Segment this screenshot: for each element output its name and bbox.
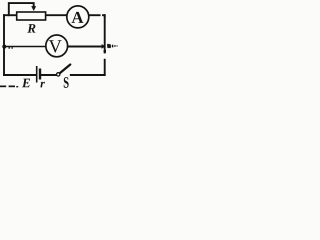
label A: [72, 12, 84, 23]
wire voltmeter left branch: [4, 46, 46, 48]
scan speck 1: [112, 45, 113, 48]
node junction dot left: [2, 45, 6, 49]
voltmeter U-V circle: [46, 35, 68, 57]
switch S lever: [60, 65, 70, 74]
label V: [49, 40, 62, 52]
scan speck 3: [116, 45, 119, 46]
label E: [22, 79, 30, 88]
dash mark 1 bottom-left: [0, 86, 6, 88]
scan speck under wire b: [11, 47, 13, 48]
wire right vertical upper: [104, 15, 106, 52]
arrowhead at voltmeter wire right end: [102, 44, 106, 48]
wire bottom-left to battery: [4, 74, 36, 76]
junction bulge on right vertical: [104, 50, 106, 53]
rheostat slider arrow head: [31, 6, 36, 11]
wire ammeter to top-right: [89, 14, 100, 16]
dash mark 2 bottom-left: [9, 86, 15, 88]
label r: [40, 82, 45, 88]
switch S pivot circle: [57, 73, 60, 76]
label S: [64, 77, 69, 88]
wire rheostat slider branch: [9, 3, 34, 15]
wire resistor to ammeter: [46, 14, 67, 16]
label R: [27, 24, 35, 33]
battery short thick plate: [39, 69, 41, 80]
wire battery to switch: [41, 74, 56, 76]
scan blob artifact right of vertical wire: [107, 44, 111, 48]
wire top-right corner piece: [103, 15, 105, 16]
wire voltmeter right branch: [68, 46, 102, 48]
scan speck 2: [114, 45, 115, 47]
wire right vertical lower: [104, 64, 106, 75]
background: [0, 0, 123, 89]
battery long plate: [36, 66, 38, 83]
resistor R box: [17, 12, 46, 20]
ammeter U-A circle: [67, 6, 89, 28]
dash speck 3: [16, 86, 18, 87]
wire right vertical dash: [104, 60, 106, 63]
wire switch to bottom-right corner: [71, 74, 105, 76]
wire left vertical: [3, 15, 5, 75]
scan speck under wire a: [8, 47, 10, 48]
wire top-left segment: [4, 14, 17, 16]
